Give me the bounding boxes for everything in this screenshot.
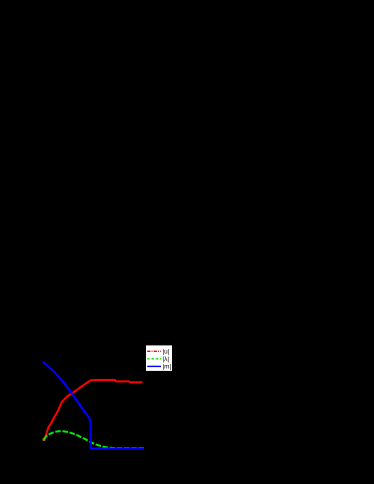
svg-text:|m|: |m|	[163, 364, 172, 371]
legend box	[146, 345, 173, 371]
legend blue solid sample	[147, 365, 161, 367]
svg-text:|u|: |u|	[163, 349, 170, 356]
legend red dash-dot sample	[147, 350, 161, 352]
blue curve |m|	[43, 362, 144, 449]
start marker (red+green overlap)	[43, 438, 46, 441]
legend green dashed sample	[147, 358, 161, 360]
green dashed curve |lambda|	[44, 431, 145, 448]
red curve |u|	[44, 380, 142, 441]
svg-text:|λ|: |λ|	[163, 356, 170, 363]
